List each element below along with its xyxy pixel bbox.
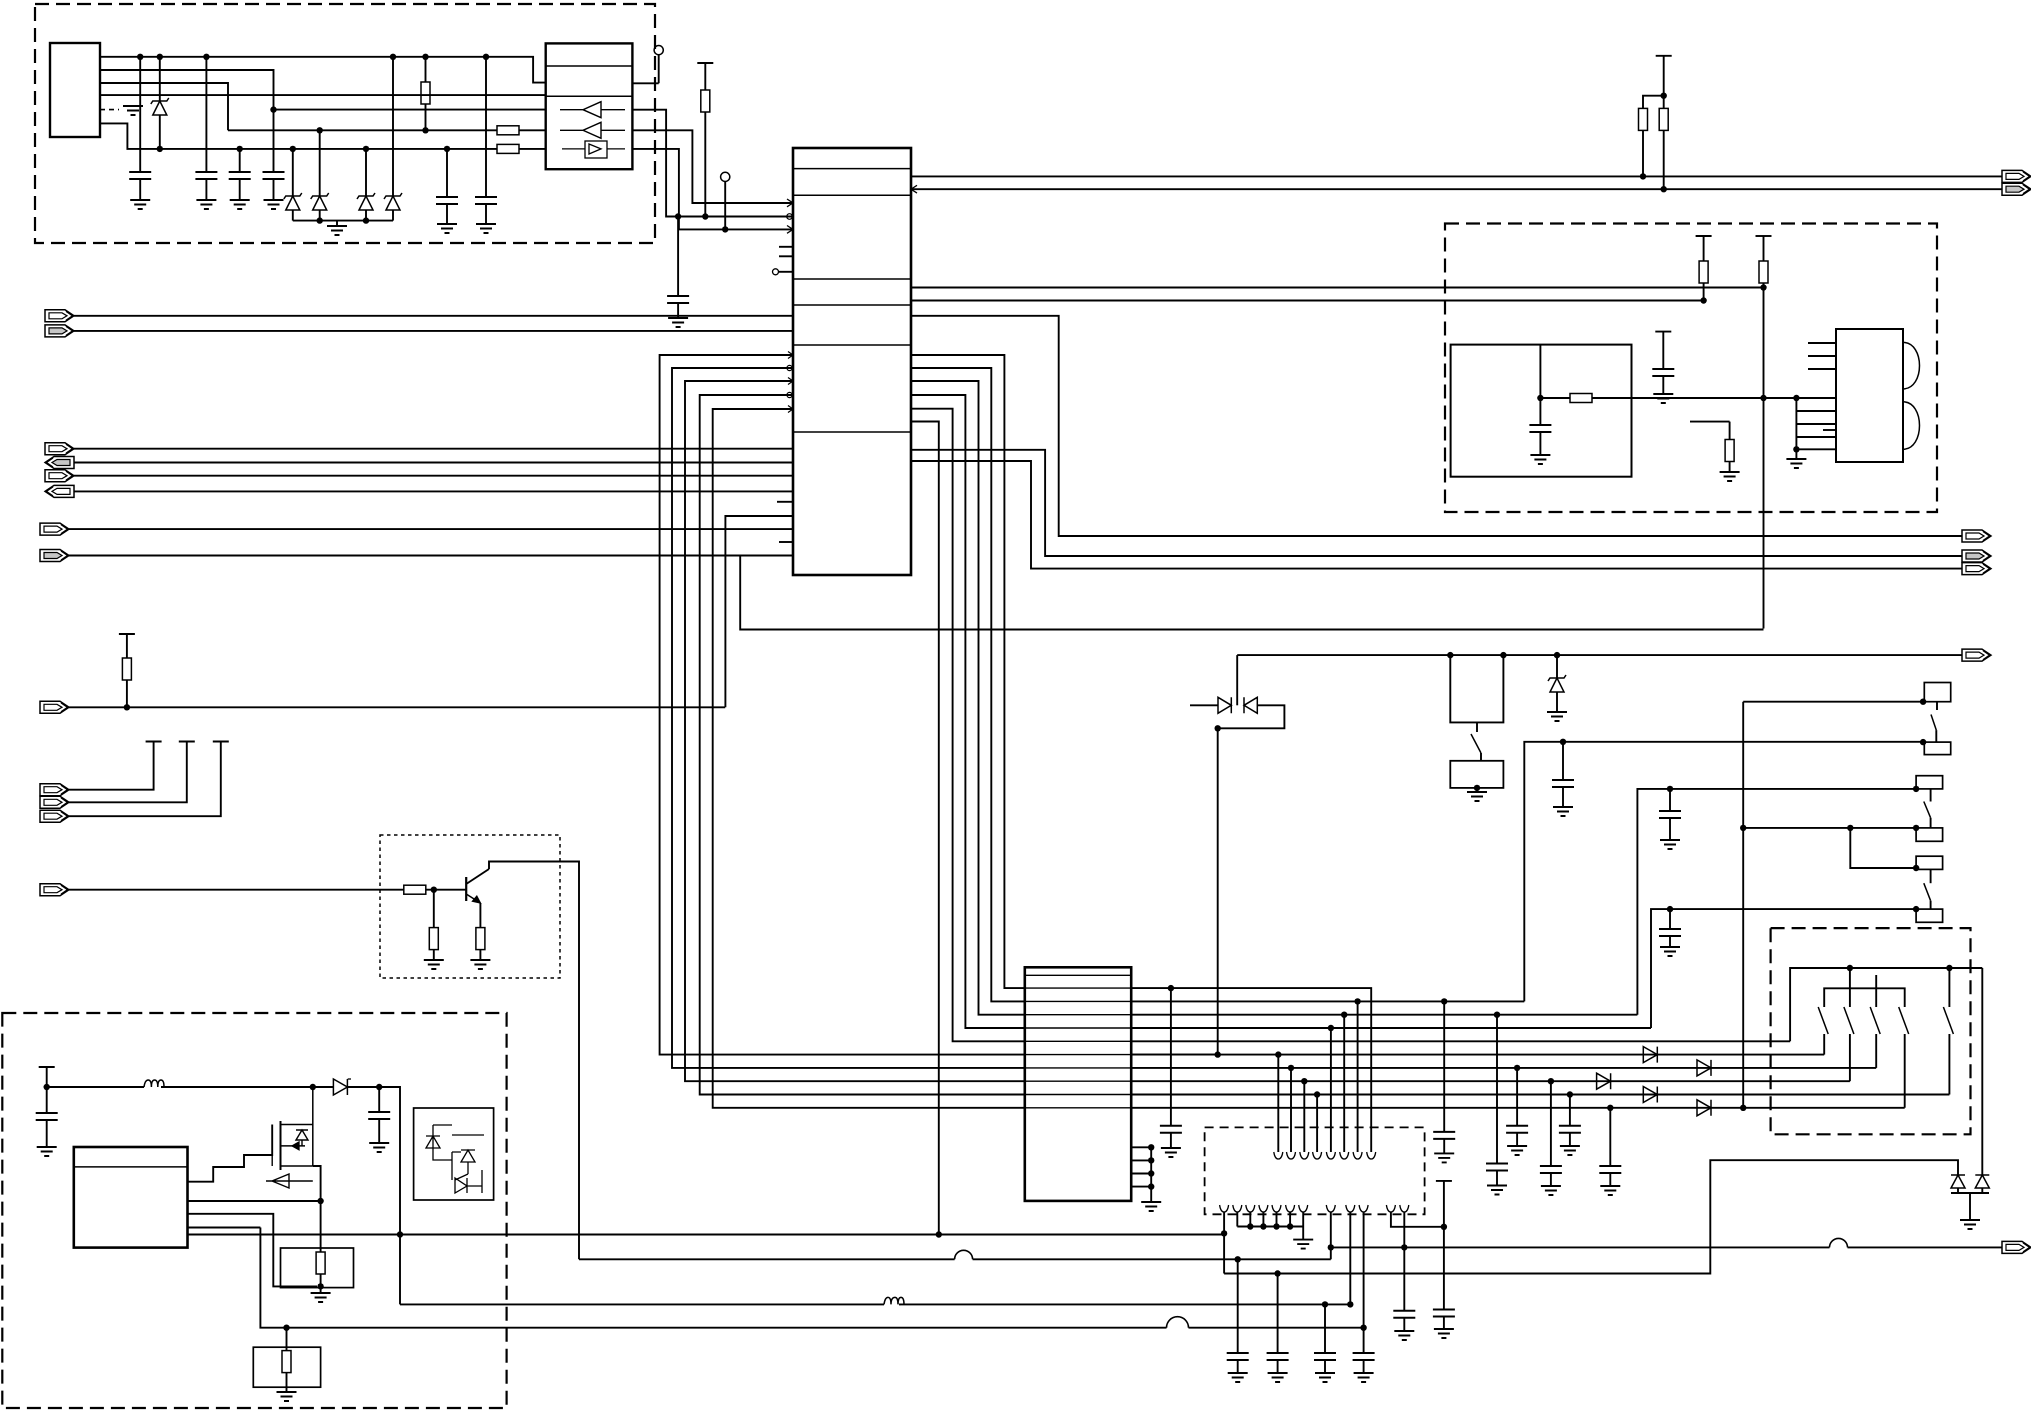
- capacitor C13: [1441, 998, 1447, 1004]
- wire U1 right pin r3 to row2: [911, 381, 1025, 1015]
- sensor module M2 lower box: [1916, 828, 1943, 841]
- MCU block U1: [793, 148, 911, 575]
- resistor R15: [320, 1201, 322, 1252]
- M1 switch blade: [1936, 702, 1938, 710]
- U1 pin6 stub: [779, 271, 793, 273]
- wire row3 segment: [1131, 1027, 1651, 1029]
- sensor module M1 lower box: [1924, 742, 1950, 755]
- keypad rail2: [1824, 988, 1905, 1007]
- wire row5 transformer tap: [1275, 1051, 1281, 1057]
- wire J9 long line: [69, 706, 725, 708]
- resistor R8: [1696, 235, 1712, 237]
- CN1 row line 2: [1025, 1000, 1131, 1002]
- capacitor C24: [1324, 1304, 1326, 1353]
- wire J3 to U1: [74, 448, 793, 450]
- wire row5 segment: [1131, 1054, 1218, 1056]
- connector arrow J6 input: [45, 485, 74, 497]
- CN1 row line 7: [1025, 1067, 1131, 1069]
- U1 divider 6: [793, 431, 911, 433]
- M2 switch blade: [1930, 789, 1932, 802]
- wire row0: [1131, 988, 1371, 1152]
- capacitor C12: [1667, 906, 1673, 912]
- U1 pin marker chevron pin1: [787, 199, 793, 207]
- filter bottom pin 12: [1403, 1212, 1405, 1247]
- Q3 body diode: [296, 1130, 308, 1146]
- buffer gate 1: [560, 102, 625, 118]
- connector arrow J3: [45, 443, 74, 455]
- wire zener common ground: [293, 220, 393, 222]
- resistor R2: [497, 126, 519, 135]
- wire row1 net riser: [1524, 742, 1923, 1002]
- connector arrow K2: [2002, 183, 2031, 195]
- key switch SW4: [1899, 1007, 1909, 1034]
- wire U1 pin C to bus row7: [685, 381, 1025, 1081]
- wire row8 transformer tap: [1314, 1091, 1320, 1097]
- gate driver symbol Q4: [266, 1174, 313, 1188]
- wire SW5 to row8: [1131, 1094, 1949, 1096]
- MCU pin4 stub: [779, 246, 793, 248]
- CN1 row line 6: [1025, 1054, 1131, 1056]
- wire U2 to buffer input2: [100, 83, 497, 130]
- power stage dashed enclosure: [2, 1013, 506, 1408]
- filter bottom pin 9: [1349, 1212, 1351, 1304]
- wire net A power line: [188, 1234, 1225, 1236]
- resistor R7: [1663, 96, 1665, 109]
- wire U2 pin4 to buffer: [100, 94, 546, 96]
- CN1 row line 0: [1025, 974, 1131, 976]
- inductor L2: [144, 1080, 164, 1087]
- capacitor C23: [1277, 1274, 1279, 1354]
- U1 pin marker chevron pin3: [787, 226, 793, 234]
- wire U1 pin G to J9 net: [725, 516, 793, 707]
- zener diode Z4: [363, 146, 369, 152]
- filter bottom pin 10: [1363, 1212, 1365, 1328]
- diode D5 row8: [1643, 1087, 1657, 1103]
- U1 stub pin y543: [779, 541, 793, 543]
- test point TP2: [721, 172, 730, 181]
- CN1 row line 3: [1025, 1014, 1131, 1016]
- filter bottom pin 1: [1223, 1212, 1225, 1233]
- resistor R9: [1756, 235, 1772, 237]
- wire U1 right pin r5 to row4: [911, 409, 1025, 1042]
- regulator block U2: [50, 43, 100, 137]
- wire U1 right pin r7 to right arrow2: [911, 450, 1962, 556]
- wire J5 to U1: [74, 475, 793, 477]
- CN1 row line 1: [1025, 987, 1131, 989]
- wire Q1 collector: [489, 862, 579, 1260]
- connector arrow J4 input: [45, 457, 74, 469]
- wire U1 to top connector line2: [911, 188, 2002, 190]
- U1 stub pin y502: [777, 501, 793, 503]
- CN1 lower stub pin3: [1131, 1173, 1151, 1175]
- wire TVS center up: [1236, 655, 1238, 705]
- U4 output arc bottom: [1903, 402, 1920, 450]
- resistor R1: [422, 54, 428, 60]
- resistor R6: [1656, 55, 1672, 57]
- U1 divider 3: [793, 278, 911, 280]
- M3 switch blade: [1930, 869, 1932, 883]
- capacitor C5: [444, 146, 450, 152]
- wire U1 right pin r4 to row3: [911, 395, 1025, 1028]
- key switch SW2: [1849, 968, 1851, 1007]
- diode clamp common ground: [1951, 1192, 1989, 1194]
- capacitor C21: [1436, 1180, 1452, 1182]
- filter bottom pin 11: [1391, 1212, 1444, 1227]
- wire U1 right pin r8 to right arrow3: [911, 461, 1962, 569]
- connector arrow K4: [1962, 550, 1991, 562]
- keypad dashed enclosure: [1771, 928, 1971, 1134]
- wire gate drive zigzag: [188, 1125, 273, 1182]
- capacitor C7: [675, 213, 681, 219]
- wire Q4 to source column: [313, 1166, 321, 1201]
- connector arrow K3: [1962, 530, 1991, 542]
- U4 pin stubs upper: [1808, 342, 1836, 344]
- resistor R12: [404, 885, 426, 894]
- CN1 shield ground: [1150, 1147, 1152, 1202]
- capacitor C19: [1168, 985, 1174, 991]
- buffer gate 2: [560, 122, 625, 138]
- current sense box S1: [281, 1248, 354, 1288]
- CN1 row line 8: [1025, 1080, 1131, 1082]
- zener diode Z3: [290, 146, 296, 152]
- CN1 row line 10: [1025, 1107, 1131, 1109]
- driver IC U4: [1836, 329, 1903, 462]
- connector arrow K7: [2002, 1241, 2031, 1253]
- TVS bidirectional suppressor D1: [1190, 704, 1218, 706]
- filter ground tie bar: [1237, 1226, 1303, 1228]
- connector arrow K6: [1962, 649, 1991, 661]
- key switch SW3: [1875, 975, 1877, 1007]
- wire J6 to U1: [74, 490, 793, 492]
- battery block B1: [74, 1147, 188, 1248]
- diode D3 row6: [1697, 1060, 1711, 1076]
- buzzer module BZ1: [1450, 761, 1503, 788]
- key switch SW5: [1948, 968, 1950, 1007]
- wire crystal out to U4: [1632, 397, 1837, 399]
- sensor module M2 upper box: [1913, 786, 1919, 792]
- Q3 gate arrow: [292, 1142, 299, 1150]
- wire U1 pin F to idle bus: [740, 556, 1763, 630]
- wire SW3 to row6: [1131, 1067, 1876, 1069]
- capacitor C6: [483, 54, 489, 60]
- wire row2 transformer tap: [1341, 1012, 1347, 1018]
- U1 divider 2: [793, 194, 911, 196]
- connector arrow J2: [45, 325, 74, 337]
- wire TVS net down to bus row5: [1217, 728, 1219, 1054]
- test point TP1: [654, 46, 663, 55]
- wire buffer out3 to MCU pin3: [632, 149, 793, 230]
- wire J13 to base resistor: [69, 889, 404, 891]
- wire J2 to U1: [74, 330, 793, 332]
- CN1 lower stub pin1: [1131, 1146, 1151, 1148]
- U1 pin5 stub: [779, 255, 793, 257]
- wire U1 pin E to bus row9: [713, 409, 1025, 1108]
- resistor R10: [1540, 397, 1570, 399]
- U4 ground bus: [1795, 398, 1797, 449]
- capacitor C25: [1363, 1328, 1365, 1353]
- wire SW4 to row9: [1131, 1107, 1905, 1109]
- capacitor C18: [1607, 1105, 1613, 1111]
- U4 internal stub: [1823, 429, 1836, 431]
- capacitor C15: [1514, 1065, 1520, 1071]
- CN1 row line 9: [1025, 1094, 1131, 1096]
- wire idle bus lower to arrow: [1237, 654, 1962, 656]
- connector block CN1: [1025, 967, 1131, 1201]
- capacitor C20: [1403, 1247, 1405, 1310]
- U1 divider 1: [793, 168, 911, 170]
- oscillator section dashed enclosure: [1445, 224, 1937, 513]
- sensor module M1 upper box: [1920, 739, 1926, 745]
- wire SW1 to row5: [1131, 1054, 1824, 1056]
- capacitor C14: [1494, 1012, 1500, 1018]
- filter tie ground: [1302, 1227, 1304, 1240]
- wire TP1 to buffer: [632, 55, 658, 84]
- wire J11 up to tbar: [69, 742, 187, 803]
- wire switch node down: [379, 1087, 400, 1304]
- wire U1 right pin r6 down to bottom net: [911, 422, 939, 1235]
- sense resistor box S2: [253, 1347, 320, 1387]
- wire net C collector line: [579, 1258, 1331, 1260]
- connector arrow J5: [45, 470, 74, 482]
- S3 internal circuit: [426, 1125, 440, 1148]
- CN1 row line 4: [1025, 1027, 1131, 1029]
- zener diode Z2: [317, 127, 323, 133]
- U1 right pin marker: [911, 185, 917, 193]
- sensor module M3 upper box: [1916, 856, 1943, 869]
- charge pump module S3: [414, 1108, 494, 1200]
- dual diode clamp D7: [1951, 1175, 1965, 1188]
- wire B1 pin3 down: [188, 1214, 318, 1287]
- wire riser x1743: [1742, 702, 1744, 1108]
- wire J8 to U1: [69, 555, 793, 557]
- capacitor C22: [1237, 1259, 1239, 1353]
- buffer block U3: [546, 43, 633, 169]
- relay coil RL1: [1447, 652, 1453, 658]
- wire branch to M3: [1850, 828, 1916, 868]
- wire net B to output arrow: [1331, 1246, 2002, 1248]
- wire pin1 junction: [1221, 1230, 1227, 1236]
- U1 left pin markers: [788, 352, 793, 413]
- resistor R5 pullup: [119, 633, 135, 635]
- keypad rail1: [1790, 968, 1982, 1041]
- connector arrow J11: [40, 796, 69, 808]
- connector arrow J12: [40, 810, 69, 822]
- wire R11 top: [1690, 421, 1730, 423]
- wire U1 right pin r1 to row0: [911, 355, 1025, 988]
- connector arrow J7: [40, 523, 69, 535]
- wire VCC rail: [100, 57, 546, 83]
- zener diode Z1: [157, 54, 163, 60]
- wire input rail: [47, 1086, 313, 1088]
- wire TVS loop: [1218, 705, 1285, 728]
- connector arrow K5: [1962, 563, 1991, 575]
- wire SW2 to row7: [1131, 1080, 1850, 1082]
- capacitor C1: [137, 54, 143, 60]
- CN1 lower stub pin2: [1131, 1159, 1151, 1161]
- sensor module M3 lower box: [1916, 909, 1943, 922]
- wire crystal internal: [1539, 345, 1541, 398]
- wire net D feedback line: [1224, 1160, 1958, 1273]
- filter bottom pin 8: [1330, 1212, 1332, 1259]
- capacitor C17: [1567, 1091, 1573, 1097]
- MOSFET Q3: [271, 1125, 273, 1167]
- wire net E inductor line: [400, 1303, 1350, 1305]
- CN1 row line 5: [1025, 1040, 1131, 1042]
- wire U2 to buffer input1: [100, 70, 545, 110]
- line filter dashed enclosure: [1205, 1127, 1425, 1214]
- dual diode clamp D8: [1981, 968, 1983, 1175]
- wire U1 pin A to bus row5: [660, 355, 1025, 1055]
- wire J7 to U1: [69, 528, 793, 530]
- transistor Q1: [465, 877, 467, 901]
- transistor section dotted enclosure: [380, 835, 560, 978]
- connector arrow J1: [45, 310, 74, 322]
- capacitor C3: [237, 146, 243, 152]
- ground of BZ1: [1474, 785, 1480, 791]
- capacitor C4: [270, 106, 276, 112]
- wire row3 transformer tap: [1328, 1025, 1334, 1031]
- wire TP2 lead: [724, 182, 726, 230]
- wire B1 pin2 line: [188, 1200, 321, 1202]
- wire M2 lower line: [1743, 827, 1916, 829]
- zener diode Z6: [1554, 652, 1560, 658]
- resistor R4: [702, 213, 708, 219]
- resistor R14: [479, 903, 481, 928]
- resistor R16: [286, 1328, 288, 1351]
- resistor R3: [497, 144, 519, 153]
- connector arrow J10: [40, 784, 69, 796]
- wire U1 pin D to bus row8: [700, 395, 1025, 1095]
- diode D9: [310, 1084, 316, 1090]
- crystal module Y1: [1451, 345, 1632, 477]
- CN1 lower stub pin4: [1131, 1186, 1151, 1188]
- capacitor C8: [1539, 398, 1541, 425]
- U1 divider 5: [793, 344, 911, 346]
- U4 output arc top: [1903, 342, 1920, 389]
- wire R9 net down to idle bus: [1763, 288, 1765, 629]
- wire row7 transformer tap: [1301, 1078, 1307, 1084]
- wire U1 pin B to bus row6: [672, 368, 1025, 1068]
- capacitor C11: [1667, 786, 1673, 792]
- wire U1 right pin j1out to right arrow1: [911, 316, 1962, 536]
- wire row4 to keypad rail1: [1131, 1040, 1790, 1042]
- capacitor C2: [203, 54, 209, 60]
- key switch SW1: [1818, 1007, 1828, 1034]
- connector arrow J9: [40, 701, 69, 713]
- buffer gate 3 boxed: [585, 141, 607, 158]
- diode D6 row9: [1697, 1100, 1711, 1116]
- wire U1 right pin r2 to row1: [911, 368, 1025, 1001]
- filter bottom tie pins 2-7: [1236, 1212, 1238, 1227]
- diode D4 row7: [1597, 1073, 1611, 1089]
- U1 pin marker circle pin2: [787, 214, 793, 220]
- wire J4 to U1: [74, 462, 793, 464]
- wire J10 up to tbar: [69, 742, 154, 790]
- wire buffer out2 to MCU pin1: [632, 130, 793, 203]
- wire row6 transformer tap: [1288, 1065, 1294, 1071]
- wire U1 to top connector line1: [911, 175, 2002, 177]
- resistor R13: [433, 890, 435, 928]
- wire U1 to oscillator line2: [911, 300, 1704, 302]
- wire U1 to oscillator line1: [911, 287, 1764, 289]
- zener diode Z5: [390, 54, 396, 60]
- inductor L1: [884, 1297, 904, 1304]
- power input section dashed enclosure: [35, 4, 655, 243]
- capacitor C27: [376, 1084, 382, 1090]
- wire buffer out1 to MCU pin2: [632, 110, 793, 217]
- ground dashed symbol near U2: [100, 109, 119, 111]
- wire row1 transformer tap: [1354, 998, 1360, 1004]
- connector arrow K1: [2002, 170, 2031, 182]
- resistor R11: [1729, 422, 1731, 440]
- wire row3 net riser: [1651, 909, 1916, 1028]
- connector arrow J13: [40, 884, 69, 896]
- wire U2 zener row line: [100, 123, 497, 148]
- wire J1 to U1: [74, 315, 793, 317]
- wire M1 line: [1743, 701, 1923, 703]
- diode D2 row5: [1643, 1047, 1657, 1063]
- U1 divider 4: [793, 304, 911, 306]
- wire row1 segment: [1131, 1000, 1524, 1002]
- wire net F sense line: [260, 1228, 1363, 1328]
- capacitor C10: [1560, 739, 1566, 745]
- wire row2 segment: [1131, 1014, 1637, 1016]
- capacitor C16: [1548, 1078, 1554, 1084]
- wire row2 net riser: [1637, 789, 1916, 1015]
- wire B1 pin4 down: [188, 1227, 261, 1229]
- capacitor C26 input: [39, 1066, 55, 1068]
- relay switch SW0: [1476, 722, 1478, 732]
- U4 pin stubs lower: [1796, 410, 1836, 412]
- wire J12 up to tbar: [69, 742, 221, 817]
- connector arrow J8: [40, 550, 69, 562]
- capacitor C9: [1655, 331, 1671, 333]
